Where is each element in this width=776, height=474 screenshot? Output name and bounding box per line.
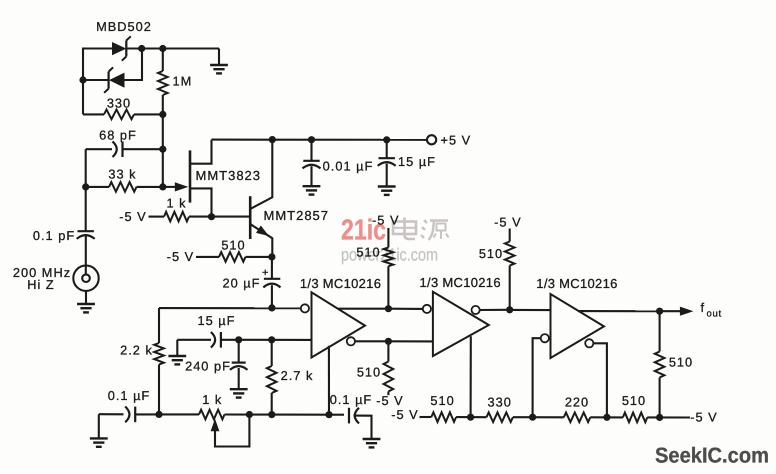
resistor 510 (fout termination) bbox=[655, 311, 665, 417]
wire 0.1pF to source circle bbox=[85, 235, 87, 274]
label 20 uF bbox=[223, 276, 261, 291]
label MMT2857 bbox=[264, 208, 330, 223]
label 510 (fout) bbox=[669, 354, 693, 369]
svg-text:-5 V: -5 V bbox=[494, 215, 521, 230]
label 0.01 uF bbox=[323, 159, 374, 174]
wire U1 out to U2 input bbox=[388, 308, 422, 310]
node junction 2.7k / rail bbox=[268, 411, 275, 418]
svg-text:SeekIC.com: SeekIC.com bbox=[655, 444, 769, 468]
node junction rail/15uF bbox=[383, 136, 390, 143]
svg-text:2.7 k: 2.7 k bbox=[281, 368, 314, 383]
svg-text:510: 510 bbox=[356, 245, 380, 260]
bubble U3 complementary output bbox=[585, 339, 593, 347]
resistor 510 (U1 lower, to -5V) bbox=[384, 341, 394, 395]
resistor 33k (horizontal) bbox=[86, 182, 163, 192]
wire source to ground bbox=[85, 291, 87, 304]
wire U1 comp out to U2 lower input bbox=[388, 340, 432, 342]
label 200 MHz bbox=[13, 265, 71, 280]
svg-text:-5 V: -5 V bbox=[376, 393, 403, 408]
capacitor 68pF bbox=[86, 141, 163, 157]
svg-text:510: 510 bbox=[221, 238, 245, 253]
node junction 240pF bbox=[235, 336, 242, 343]
svg-text:MMT2857: MMT2857 bbox=[264, 208, 330, 223]
wire Q1 source down to 1k node bbox=[190, 188, 212, 216]
svg-text:-5 V: -5 V bbox=[391, 407, 418, 422]
resistor 1k (to -5V) bbox=[149, 212, 251, 222]
svg-text:+: + bbox=[262, 267, 268, 279]
node junction 2.2k / rail bbox=[155, 411, 162, 418]
svg-text:2.2 k: 2.2 k bbox=[120, 342, 153, 357]
svg-text:240 pF: 240 pF bbox=[185, 359, 231, 374]
node junction U2 bottom / rail bbox=[467, 414, 474, 421]
svg-text:Hi Z: Hi Z bbox=[27, 277, 54, 292]
wire U1 comp out bbox=[355, 340, 385, 342]
label 220 (rail) bbox=[565, 394, 589, 409]
node junction 68pF right bbox=[159, 146, 166, 153]
resistor 510 (emitter) bbox=[196, 252, 272, 262]
wire U2 out to U3 input bbox=[510, 309, 551, 311]
pot wiper arrow and loop bbox=[211, 415, 250, 447]
op-amp gate U3 1/3 MC10216 (triangle) bbox=[551, 294, 605, 358]
wire gate arrow into MMT3823 bbox=[163, 182, 189, 191]
wire U3 output bbox=[579, 310, 657, 312]
svg-text:510: 510 bbox=[479, 246, 503, 261]
node junction pot wiper / rail bbox=[246, 411, 253, 418]
svg-text:0.01 µF: 0.01 µF bbox=[323, 159, 374, 174]
capacitor 240 pF bbox=[230, 340, 248, 389]
resistor 510 (rail b) bbox=[623, 413, 690, 423]
op-amp gate U2 1/3 MC10216 (triangle) bbox=[433, 292, 489, 356]
wire left feedback column bbox=[158, 308, 160, 343]
label 1 k bbox=[166, 195, 186, 210]
label MMT3823 bbox=[196, 168, 262, 183]
node junction fout bbox=[656, 308, 663, 315]
node junction U1 out / 510 pullups bbox=[385, 305, 392, 312]
label 510 (lower U1) bbox=[357, 364, 381, 379]
svg-text:0.1 pF: 0.1 pF bbox=[33, 228, 75, 243]
ground (below source) bbox=[77, 304, 95, 312]
svg-text:220: 220 bbox=[565, 394, 589, 409]
wire gate1 input line bbox=[159, 307, 301, 309]
svg-text:510: 510 bbox=[669, 354, 693, 369]
node junction gate1 bottom / rail bbox=[325, 411, 332, 418]
node junction rail/0.01uF bbox=[308, 136, 315, 143]
svg-text:-5 V: -5 V bbox=[690, 410, 717, 425]
svg-text:1/3 MC10216: 1/3 MC10216 bbox=[536, 276, 617, 291]
svg-text:1 k: 1 k bbox=[202, 392, 222, 407]
resistor 1M (vertical) bbox=[158, 49, 168, 115]
label 0.1 uF (bottom middle) bbox=[330, 392, 373, 407]
label 330 bbox=[107, 96, 131, 111]
label 15 uF (mid) bbox=[198, 313, 236, 328]
svg-text:-5 V: -5 V bbox=[372, 212, 399, 227]
node junction U2 out / 510 pullup bbox=[506, 306, 513, 313]
capacitor 15 uF (AC ground) bbox=[177, 332, 311, 348]
ground (15uF left) bbox=[168, 340, 186, 365]
resistor 510 (U2 pull to -5V) bbox=[505, 229, 515, 310]
wire Q2 emitter with arrow bbox=[250, 224, 272, 257]
watermark SeekIC.com (dark gray) bbox=[655, 444, 769, 468]
label 1 k (pot) bbox=[202, 392, 222, 407]
label 2.7 k bbox=[281, 368, 314, 383]
wire left rail top (diode loop) bbox=[83, 49, 112, 115]
wire U1 output top bbox=[338, 308, 385, 310]
label 1/3 MC10216 (U2) bbox=[420, 275, 501, 290]
node junction U3 comp out / rail bbox=[603, 414, 610, 421]
label -5 V (upper 510 U1) bbox=[372, 212, 399, 227]
node junction top-a bbox=[138, 45, 145, 52]
svg-text:15 µF: 15 µF bbox=[198, 313, 236, 328]
wire diode D1a cathode to ground bbox=[126, 47, 219, 49]
label -5 V (lower 510 U1) bbox=[376, 393, 403, 408]
wire Q2 collector bbox=[250, 140, 272, 209]
transistor Q2 MMT2857 base bar bbox=[249, 196, 252, 239]
svg-text:330: 330 bbox=[488, 394, 512, 409]
label -5 V (rail left end) bbox=[391, 407, 418, 422]
resistor 2.7k (vertical) bbox=[267, 340, 277, 415]
bubble U1 complementary output bbox=[347, 337, 355, 345]
wire U1 bottom to rail bbox=[328, 346, 330, 415]
node junction rail/Q2 collector bbox=[269, 136, 276, 143]
node junction 330/1M bbox=[159, 111, 166, 118]
svg-text:-5 V: -5 V bbox=[119, 209, 146, 224]
svg-text:f: f bbox=[701, 300, 705, 315]
label 240 pF bbox=[185, 359, 231, 374]
node junction left rail / D1b bbox=[79, 76, 86, 83]
label -5 V (rail right end) bbox=[690, 410, 717, 425]
svg-text:510: 510 bbox=[622, 393, 646, 408]
label 510 (U2 pullup) bbox=[479, 246, 503, 261]
label 510 (emitter) bbox=[221, 238, 245, 253]
node junction fout 510 / rail bbox=[656, 414, 663, 421]
watermark power21ic.com (gray) bbox=[341, 245, 438, 265]
svg-text:1 k: 1 k bbox=[166, 195, 186, 210]
label MBD502 bbox=[96, 19, 152, 34]
svg-text:MMT3823: MMT3823 bbox=[196, 168, 262, 183]
node junction Q1 source / 1k bbox=[208, 213, 215, 220]
resistor 330 (horizontal) bbox=[83, 110, 163, 120]
node junction U3 left input / rail bbox=[529, 414, 536, 421]
op-amp gate U1 1/3 MC10216 (triangle) bbox=[312, 292, 366, 357]
wire U2 output bbox=[480, 309, 507, 311]
wire D1b anode up to top wire bbox=[125, 49, 143, 81]
label -5 V (510 U2) bbox=[494, 215, 521, 230]
svg-text:510: 510 bbox=[430, 393, 454, 408]
bubble U2 output bbox=[472, 306, 480, 314]
node junction U1 comp out / 510 bbox=[385, 338, 392, 345]
wire 68pF left column bbox=[85, 149, 87, 187]
label 33 k bbox=[108, 167, 136, 182]
wire output arrow fout bbox=[660, 307, 694, 316]
node junction 2.7k top bbox=[268, 336, 275, 343]
capacitor 0.01 uF (bypass) bbox=[303, 140, 321, 186]
svg-text:0.1 µF: 0.1 µF bbox=[330, 392, 373, 407]
label + (20uF polarity) bbox=[262, 267, 268, 279]
capacitor 0.1 uF (bottom middle) bbox=[329, 408, 372, 439]
resistor 2.2k (vertical) bbox=[154, 343, 164, 414]
svg-text:out: out bbox=[707, 308, 722, 319]
svg-text:0.1 µF: 0.1 µF bbox=[108, 388, 151, 403]
wire U2 bottom to rail bbox=[470, 336, 472, 417]
ground (bottom middle) bbox=[363, 439, 381, 447]
svg-text:1/3 MC10216: 1/3 MC10216 bbox=[300, 276, 381, 291]
ground (below 0.01uF) bbox=[303, 186, 321, 194]
svg-text:68 pF: 68 pF bbox=[99, 128, 137, 143]
label 1/3 MC10216 (U3) bbox=[536, 276, 617, 291]
label Hi Z bbox=[27, 277, 54, 292]
bubble U3 lower-left input bbox=[541, 334, 549, 342]
capacitor 20 uF (polarized) bbox=[263, 257, 280, 308]
source 200 MHz Hi Z (circle symbol) bbox=[73, 266, 98, 291]
node junction 20uF / gate1 input bbox=[268, 304, 275, 311]
wire input column down to 0.1pF bbox=[85, 187, 87, 231]
wire U3 comp output down to rail bbox=[593, 343, 607, 417]
resistor 330 (rail) bbox=[487, 412, 564, 422]
label 15 uF (top) bbox=[398, 154, 436, 169]
capacitor 0.1 uF (bottom left) bbox=[99, 407, 159, 423]
svg-text:MBD502: MBD502 bbox=[96, 19, 152, 34]
wire feedback column 114-149 bbox=[162, 114, 164, 149]
watermark 21ic logo (red) bbox=[341, 215, 386, 247]
label -5 V (1k) bbox=[119, 209, 146, 224]
svg-text:33 k: 33 k bbox=[108, 167, 136, 182]
diode D1a MBD502 (pointing right) bbox=[112, 36, 131, 60]
terminal +5V (open circle) bbox=[427, 135, 436, 144]
label fout bbox=[701, 300, 722, 320]
node junction emitter/510/20uF bbox=[268, 253, 275, 260]
bubble U2 input bbox=[423, 305, 431, 313]
resistor 220 (rail) bbox=[564, 413, 623, 423]
label 0.1 uF (bottom left) bbox=[108, 388, 151, 403]
resistor 510 (rail a) bbox=[420, 412, 487, 422]
svg-text:1/3 MC10216: 1/3 MC10216 bbox=[420, 275, 501, 290]
capacitor 15 uF (bypass) bbox=[378, 140, 396, 186]
label 1M bbox=[173, 74, 193, 89]
svg-text:1M: 1M bbox=[173, 74, 193, 89]
ground (below 15uF) bbox=[378, 187, 396, 195]
wire Q1 drain to +5V rail bbox=[190, 140, 212, 164]
label 68 pF bbox=[99, 128, 137, 143]
svg-text:+5 V: +5 V bbox=[441, 132, 472, 147]
label 2.2 k bbox=[120, 342, 153, 357]
diode D1b MBD502 (pointing left) bbox=[104, 67, 124, 92]
svg-text:20 µF: 20 µF bbox=[223, 276, 261, 291]
resistor 1k potentiometer bbox=[159, 410, 272, 420]
label 330 (rail) bbox=[488, 394, 512, 409]
ground (bottom far left) bbox=[90, 414, 108, 447]
transistor Q1 MMT3823 channel bar bbox=[189, 150, 192, 202]
wire feedback column 149-187 bbox=[162, 149, 164, 187]
node junction top-b bbox=[159, 45, 166, 52]
label 510 (rail a) bbox=[430, 393, 454, 408]
wire U3 lower-left input down to rail bbox=[533, 338, 541, 417]
resistor 510 (U1 pull-down upper, to -5V) bbox=[384, 228, 394, 309]
svg-text:330: 330 bbox=[107, 96, 131, 111]
svg-text:15 µF: 15 µF bbox=[398, 154, 436, 169]
label 510 (upper U1) bbox=[356, 245, 380, 260]
node junction 33k left bbox=[82, 183, 89, 190]
wire rail to gate1 bottom bbox=[272, 414, 329, 416]
ground (top right of diodes) bbox=[210, 49, 228, 74]
wire +5V rail bbox=[212, 139, 428, 141]
wire left rail to D1b cathode bbox=[83, 79, 109, 81]
label -5 V (510 emitter) bbox=[167, 249, 194, 264]
label 0.1 pF bbox=[33, 228, 75, 243]
ground (below 240pF) bbox=[230, 389, 248, 397]
svg-text:-5 V: -5 V bbox=[167, 249, 194, 264]
bubble U1 input bbox=[301, 304, 309, 312]
node junction 33k right bbox=[159, 183, 166, 190]
label 1/3 MC10216 (U1) bbox=[300, 276, 381, 291]
label 510 (rail b) bbox=[622, 393, 646, 408]
svg-text:510: 510 bbox=[357, 364, 381, 379]
label +5 V bbox=[441, 132, 472, 147]
capacitor 0.1 pF bbox=[77, 231, 95, 239]
watermark CJK characters (dian yuan) bbox=[393, 218, 449, 241]
